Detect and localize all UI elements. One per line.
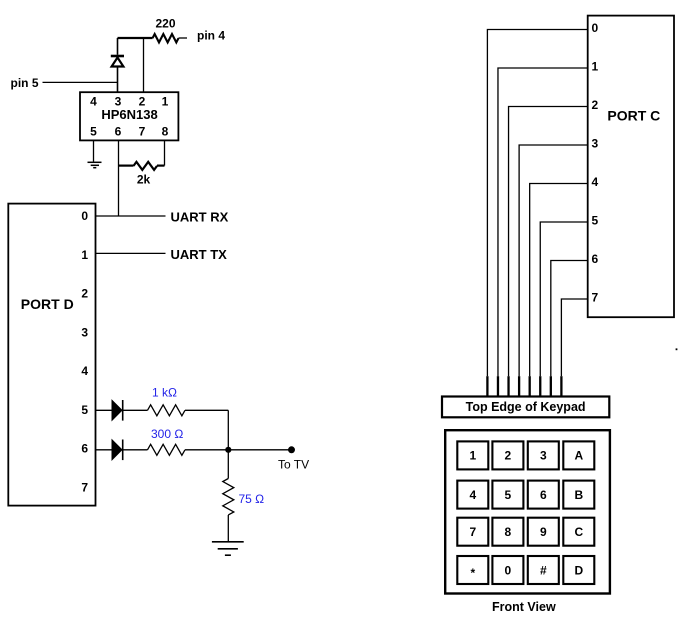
svg-text:pin 5: pin 5 bbox=[11, 76, 39, 90]
svg-text:3: 3 bbox=[81, 325, 88, 339]
diode D2 cathode bar bbox=[122, 400, 124, 421]
svg-text:6: 6 bbox=[540, 488, 547, 502]
wire PORT C pin 1 to keypad bbox=[498, 68, 588, 397]
Top Edge of Keypad box bbox=[442, 397, 609, 418]
wire 2k left segment bbox=[119, 165, 134, 167]
svg-text:1: 1 bbox=[81, 248, 88, 262]
svg-text:*: * bbox=[470, 566, 475, 580]
keypad key 7 bbox=[457, 518, 488, 546]
wire node A down to R5 bbox=[227, 450, 229, 479]
wire PORT C pin 5 to keypad bbox=[540, 222, 587, 397]
svg-text:B: B bbox=[574, 488, 583, 502]
keypad key 8 bbox=[492, 518, 523, 546]
stray dot bbox=[676, 348, 678, 350]
svg-text:4: 4 bbox=[81, 364, 88, 378]
keypad key B bbox=[563, 481, 594, 509]
svg-text:6: 6 bbox=[115, 124, 122, 138]
wire 2k right segment bbox=[157, 165, 165, 167]
wire PORT D pin 5 to diode D2 bbox=[96, 409, 113, 411]
IC U1 HP6N138 body bbox=[80, 92, 178, 140]
svg-text:6: 6 bbox=[81, 442, 88, 456]
svg-text:0: 0 bbox=[592, 21, 599, 35]
svg-text:9: 9 bbox=[540, 525, 547, 539]
diode D3 cathode bar bbox=[122, 440, 124, 461]
svg-text:2: 2 bbox=[505, 449, 512, 463]
wire top rail down to LED cathode bbox=[117, 38, 119, 55]
svg-text:0: 0 bbox=[81, 209, 88, 223]
keypad key hash bbox=[528, 556, 559, 584]
svg-text:PORT D: PORT D bbox=[21, 296, 74, 312]
keypad key 3 bbox=[528, 441, 559, 469]
svg-text:Front View: Front View bbox=[492, 600, 556, 614]
wire D3 to R4 bbox=[124, 449, 148, 451]
keypad outer box bbox=[445, 430, 610, 593]
svg-text:UART TX: UART TX bbox=[171, 247, 228, 262]
wire LED anode down to U1 pin 3 bbox=[117, 68, 119, 93]
wire U1 pin 8 stub bbox=[164, 140, 166, 165]
svg-text:1: 1 bbox=[162, 95, 169, 109]
LED D1 triangle bbox=[112, 58, 124, 67]
svg-text:1 kΩ: 1 kΩ bbox=[152, 386, 177, 400]
keypad key 9 bbox=[528, 518, 559, 546]
svg-text:C: C bbox=[574, 525, 583, 539]
svg-text:D: D bbox=[574, 563, 583, 577]
svg-text:7: 7 bbox=[139, 124, 146, 138]
wire R3 to node A bbox=[185, 409, 228, 411]
svg-text:pin 4: pin 4 bbox=[197, 29, 225, 43]
junction node A bbox=[225, 447, 231, 453]
wire R4 to node A bbox=[185, 449, 228, 451]
svg-text:7: 7 bbox=[81, 480, 88, 494]
wire PORT C pin 7 to keypad bbox=[561, 299, 587, 397]
wire PORT C pin 6 to keypad bbox=[551, 261, 588, 397]
svg-text:5: 5 bbox=[81, 403, 88, 417]
keypad key C bbox=[563, 518, 594, 546]
PORT C box bbox=[588, 16, 674, 318]
svg-text:7: 7 bbox=[469, 525, 476, 539]
wire PORT D pin 6 to diode D3 bbox=[96, 449, 113, 451]
wire PORT D pin 0 (UART RX) bbox=[96, 215, 166, 217]
terminal dot To TV bbox=[288, 446, 295, 453]
svg-text:A: A bbox=[574, 449, 583, 463]
svg-text:5: 5 bbox=[592, 214, 599, 228]
svg-text:#: # bbox=[540, 563, 547, 577]
wire node A to TV terminal bbox=[228, 449, 291, 451]
svg-text:Top Edge of Keypad: Top Edge of Keypad bbox=[466, 400, 586, 414]
svg-text:1: 1 bbox=[469, 449, 476, 463]
svg-text:8: 8 bbox=[505, 525, 512, 539]
keypad key 5 bbox=[492, 481, 523, 509]
diode D3 bbox=[112, 440, 122, 460]
wire U1 pin 6 down to UART RX net bbox=[118, 140, 120, 216]
resistor R1 220 ohm bbox=[153, 34, 179, 42]
wire U1 pin 5 to ground bbox=[93, 140, 95, 161]
svg-text:8: 8 bbox=[162, 124, 169, 138]
svg-text:4: 4 bbox=[469, 488, 476, 502]
svg-text:7: 7 bbox=[592, 291, 599, 305]
svg-text:UART RX: UART RX bbox=[171, 209, 229, 224]
svg-text:300 Ω: 300 Ω bbox=[151, 427, 183, 441]
svg-text:75 Ω: 75 Ω bbox=[239, 492, 265, 506]
ground below R5 bbox=[212, 542, 244, 555]
wire D2 to R3 bbox=[124, 409, 148, 411]
wire top rail to 220 resistor bbox=[118, 37, 153, 39]
resistor R4 300 ohm bbox=[148, 444, 185, 455]
LED D1 cathode bar bbox=[111, 55, 124, 58]
svg-text:6: 6 bbox=[592, 252, 599, 266]
wire PORT C pin 4 to keypad bbox=[530, 184, 588, 397]
wire resistor R1 to pin 4 bbox=[179, 37, 188, 39]
keypad key 4 bbox=[457, 481, 488, 509]
wire PORT D pin 1 (UART TX) bbox=[96, 252, 166, 254]
svg-text:1: 1 bbox=[592, 60, 599, 74]
wire R5 to ground bbox=[227, 515, 229, 542]
keypad key star bbox=[457, 556, 488, 584]
keypad key 1 bbox=[457, 441, 488, 469]
svg-text:PORT C: PORT C bbox=[607, 108, 660, 124]
keypad key A bbox=[563, 441, 594, 469]
resistor R3 1 kilohm bbox=[148, 405, 185, 416]
svg-text:4: 4 bbox=[90, 95, 97, 109]
svg-text:2: 2 bbox=[592, 98, 599, 112]
svg-text:3: 3 bbox=[540, 449, 547, 463]
svg-text:0: 0 bbox=[505, 563, 512, 577]
wire top rail down to U1 pin 2 bbox=[143, 38, 145, 92]
svg-text:2: 2 bbox=[81, 287, 88, 301]
keypad key D bbox=[563, 556, 594, 584]
keypad key 0 bbox=[492, 556, 523, 584]
wire PORT C pin 3 to keypad bbox=[519, 145, 588, 397]
diode D2 bbox=[112, 400, 122, 420]
wire PORT C pin 0 to keypad bbox=[487, 30, 587, 397]
svg-text:220: 220 bbox=[155, 17, 175, 31]
keypad key 6 bbox=[528, 481, 559, 509]
svg-text:HP6N138: HP6N138 bbox=[101, 107, 157, 122]
wire PORT C pin 2 to keypad bbox=[509, 107, 588, 397]
svg-text:5: 5 bbox=[505, 488, 512, 502]
svg-text:5: 5 bbox=[90, 124, 97, 138]
svg-text:4: 4 bbox=[592, 175, 599, 189]
resistor R2 2k bbox=[134, 162, 158, 170]
wire pin 5 to node bbox=[43, 81, 118, 83]
wire node column pin5 to pin6 row bbox=[227, 410, 229, 450]
svg-text:2k: 2k bbox=[137, 173, 151, 187]
svg-text:To TV: To TV bbox=[278, 457, 309, 471]
PORT D box bbox=[8, 204, 95, 506]
svg-text:3: 3 bbox=[592, 137, 599, 151]
ground below U1 pin 5 bbox=[88, 162, 102, 167]
keypad key 2 bbox=[492, 441, 523, 469]
resistor R5 75 ohm bbox=[223, 479, 234, 515]
